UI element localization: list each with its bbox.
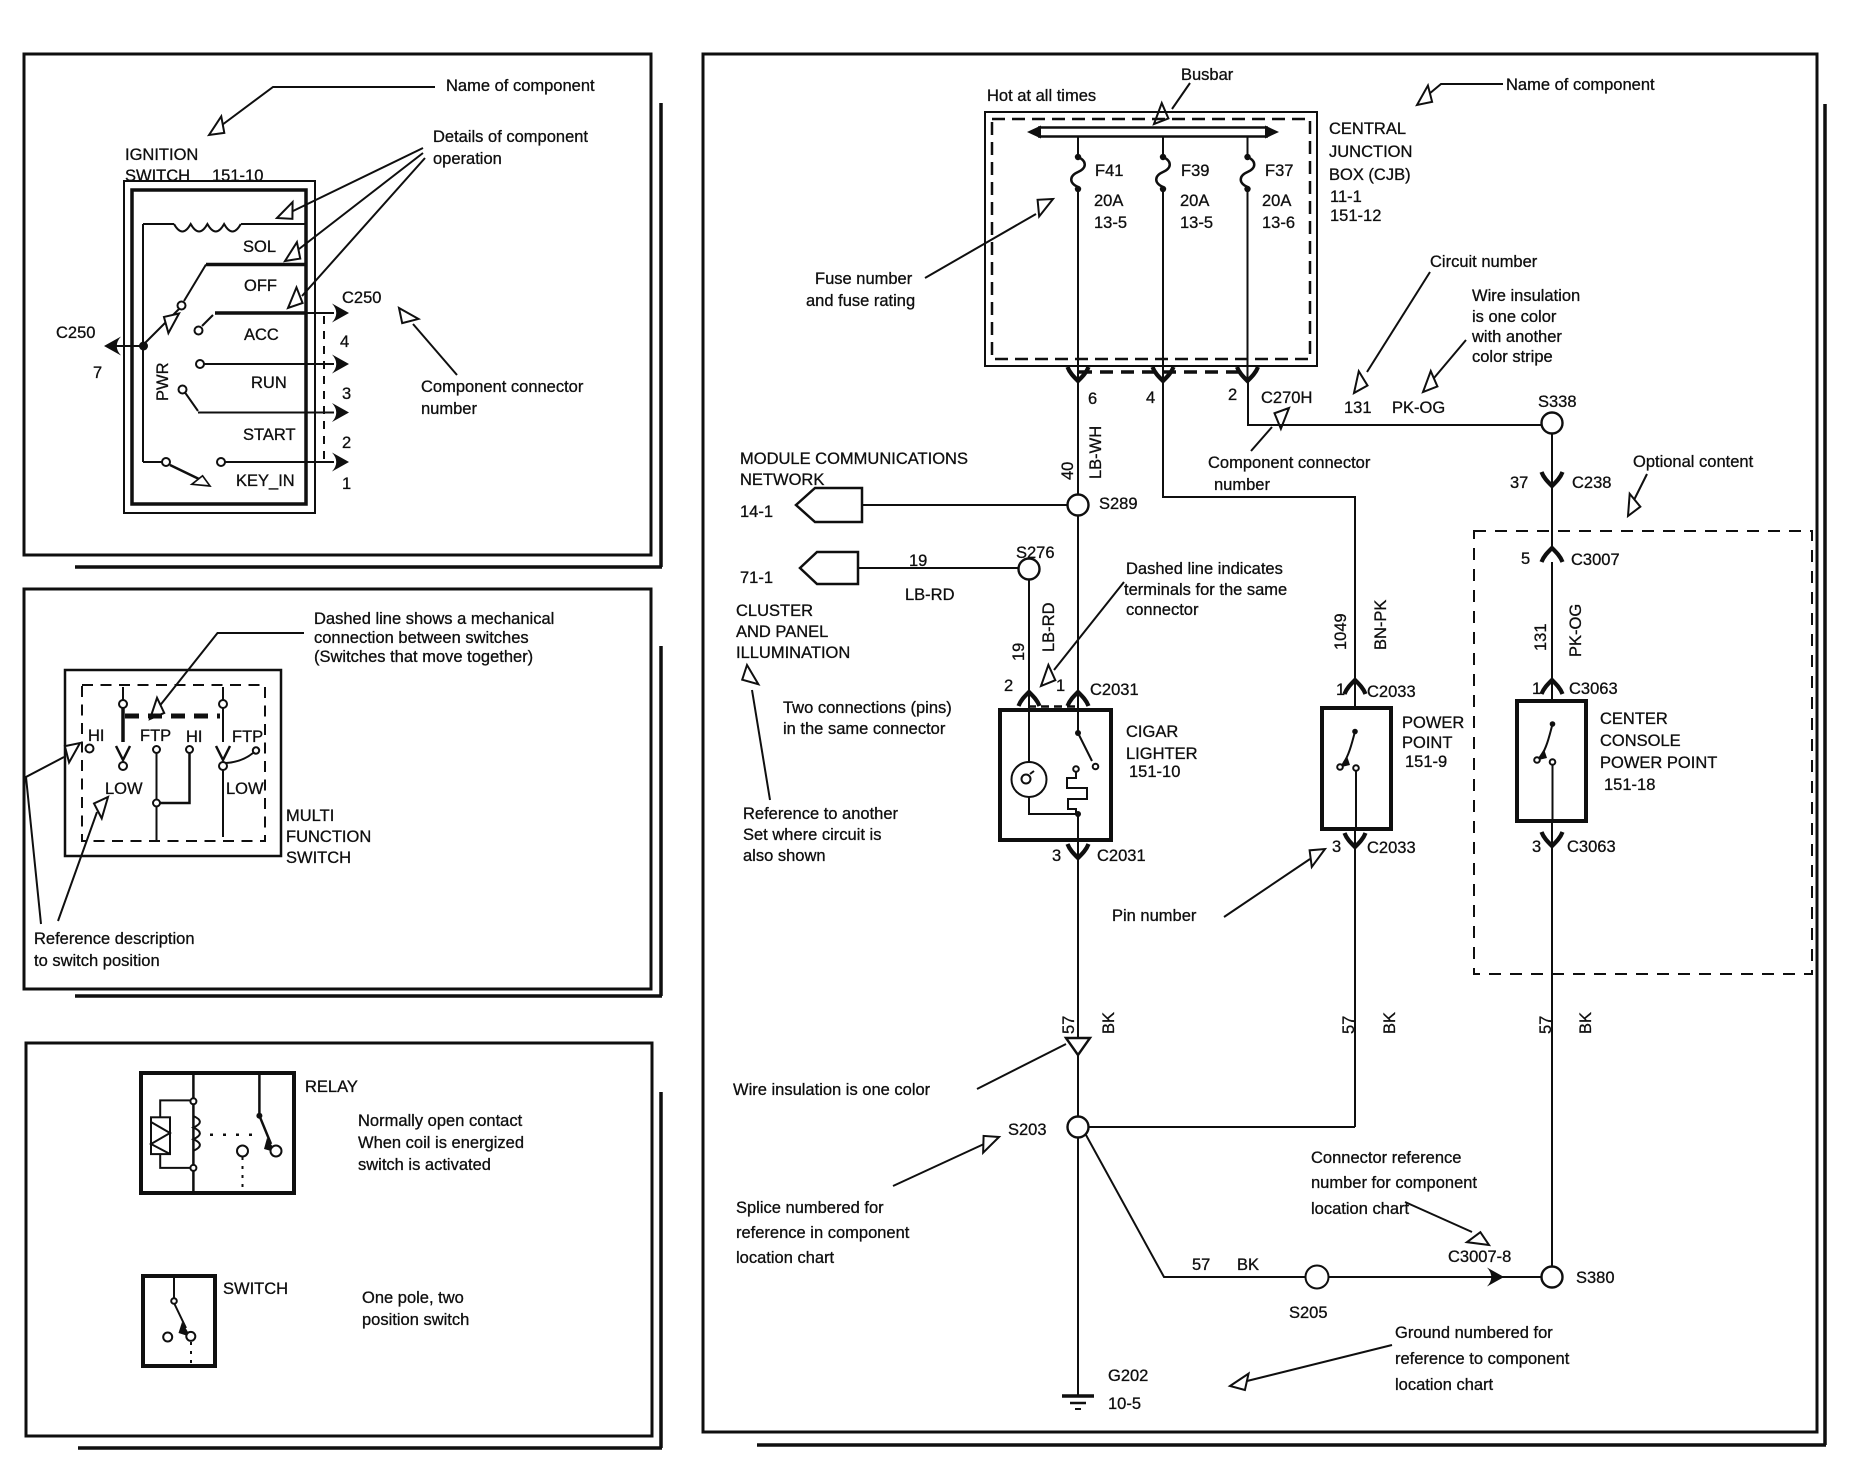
svg-text:19: 19 xyxy=(1010,643,1028,661)
svg-text:with another: with another xyxy=(1471,328,1562,346)
svg-text:1049: 1049 xyxy=(1332,613,1350,650)
svg-text:Reference description: Reference description xyxy=(34,930,195,948)
svg-text:MODULE COMMUNICATIONS: MODULE COMMUNICATIONS xyxy=(740,450,968,468)
svg-text:FUNCTION: FUNCTION xyxy=(286,828,371,846)
svg-text:IGNITION: IGNITION xyxy=(125,146,198,164)
svg-text:151-9: 151-9 xyxy=(1405,753,1447,771)
svg-text:connector: connector xyxy=(1126,601,1199,619)
svg-text:2: 2 xyxy=(1004,677,1013,695)
svg-text:FTP: FTP xyxy=(140,727,171,745)
svg-text:F41: F41 xyxy=(1095,162,1123,180)
svg-text:151-18: 151-18 xyxy=(1604,776,1655,794)
svg-text:SWITCH: SWITCH xyxy=(223,1280,288,1298)
svg-text:C238: C238 xyxy=(1572,474,1611,492)
svg-text:number: number xyxy=(421,400,477,418)
svg-text:terminals for the same: terminals for the same xyxy=(1124,581,1287,599)
svg-text:is one color: is one color xyxy=(1472,308,1557,326)
svg-text:number: number xyxy=(1214,476,1270,494)
svg-text:number for component: number for component xyxy=(1311,1174,1477,1192)
svg-text:5: 5 xyxy=(1521,550,1530,568)
svg-text:Optional content: Optional content xyxy=(1633,453,1754,471)
svg-text:7: 7 xyxy=(93,364,102,382)
svg-text:Dashed line indicates: Dashed line indicates xyxy=(1126,560,1283,578)
svg-text:S289: S289 xyxy=(1099,495,1138,513)
svg-text:151-12: 151-12 xyxy=(1330,207,1381,225)
svg-text:131: 131 xyxy=(1532,623,1550,651)
svg-text:S205: S205 xyxy=(1289,1304,1328,1322)
svg-text:2: 2 xyxy=(342,434,351,452)
svg-text:F39: F39 xyxy=(1181,162,1209,180)
svg-text:Name of component: Name of component xyxy=(446,77,595,95)
svg-text:KEY_IN: KEY_IN xyxy=(236,472,295,490)
svg-text:C3007-8: C3007-8 xyxy=(1448,1248,1511,1266)
svg-text:57: 57 xyxy=(1192,1256,1210,1274)
svg-text:LIGHTER: LIGHTER xyxy=(1126,745,1198,763)
svg-text:switch is activated: switch is activated xyxy=(358,1156,491,1174)
svg-text:Component connector: Component connector xyxy=(1208,454,1371,472)
svg-text:SOL: SOL xyxy=(243,238,276,256)
svg-text:G202: G202 xyxy=(1108,1367,1148,1385)
svg-text:Connector reference: Connector reference xyxy=(1311,1149,1461,1167)
svg-text:CLUSTER: CLUSTER xyxy=(736,602,813,620)
svg-text:10-5: 10-5 xyxy=(1108,1395,1141,1413)
svg-text:LOW: LOW xyxy=(226,780,264,798)
svg-text:MULTI: MULTI xyxy=(286,807,334,825)
svg-text:RELAY: RELAY xyxy=(305,1078,358,1096)
svg-text:BK: BK xyxy=(1381,1012,1399,1034)
svg-text:BN-PK: BN-PK xyxy=(1372,600,1390,650)
svg-text:C250: C250 xyxy=(56,324,95,342)
svg-text:71-1: 71-1 xyxy=(740,569,773,587)
svg-text:RUN: RUN xyxy=(251,374,287,392)
svg-text:Wire insulation is one color: Wire insulation is one color xyxy=(733,1081,931,1099)
svg-text:151-10: 151-10 xyxy=(1129,763,1180,781)
svg-text:position switch: position switch xyxy=(362,1311,469,1329)
svg-text:Component connector: Component connector xyxy=(421,378,584,396)
svg-text:PWR: PWR xyxy=(154,362,172,401)
svg-text:BK: BK xyxy=(1577,1012,1595,1034)
svg-text:and fuse rating: and fuse rating xyxy=(806,292,915,310)
svg-text:CENTER: CENTER xyxy=(1600,710,1668,728)
svg-text:C3063: C3063 xyxy=(1569,680,1618,698)
svg-text:Dashed line shows a mechanical: Dashed line shows a mechanical xyxy=(314,610,554,628)
svg-text:CIGAR: CIGAR xyxy=(1126,723,1178,741)
svg-text:2: 2 xyxy=(1228,386,1237,404)
svg-text:Fuse number: Fuse number xyxy=(815,270,913,288)
svg-text:LOW: LOW xyxy=(105,780,143,798)
svg-text:11-1: 11-1 xyxy=(1330,188,1362,206)
svg-text:57: 57 xyxy=(1537,1016,1555,1034)
svg-text:NETWORK: NETWORK xyxy=(740,471,824,489)
svg-text:FTP: FTP xyxy=(232,728,263,746)
svg-text:AND PANEL: AND PANEL xyxy=(736,623,828,641)
svg-text:57: 57 xyxy=(1340,1016,1358,1034)
svg-text:START: START xyxy=(243,426,296,444)
svg-text:C3007: C3007 xyxy=(1571,551,1620,569)
svg-text:1: 1 xyxy=(342,475,351,493)
svg-text:CENTRAL: CENTRAL xyxy=(1329,120,1406,138)
svg-text:HI: HI xyxy=(88,727,105,745)
svg-text:SWITCH: SWITCH xyxy=(125,167,190,185)
svg-text:Splice numbered for: Splice numbered for xyxy=(736,1199,884,1217)
svg-text:F37: F37 xyxy=(1265,162,1293,180)
svg-text:3: 3 xyxy=(1332,838,1341,856)
svg-text:color stripe: color stripe xyxy=(1472,348,1553,366)
svg-text:POWER: POWER xyxy=(1402,714,1464,732)
svg-text:SWITCH: SWITCH xyxy=(286,849,351,867)
svg-text:BK: BK xyxy=(1237,1256,1259,1274)
svg-text:Two connections (pins): Two connections (pins) xyxy=(783,699,952,717)
svg-text:14-1: 14-1 xyxy=(740,503,773,521)
svg-text:C2031: C2031 xyxy=(1090,681,1139,699)
svg-text:Ground numbered for: Ground numbered for xyxy=(1395,1324,1553,1342)
svg-text:C2033: C2033 xyxy=(1367,839,1416,857)
svg-text:1: 1 xyxy=(1532,680,1541,698)
svg-text:LB-RD: LB-RD xyxy=(905,586,955,604)
svg-text:ILLUMINATION: ILLUMINATION xyxy=(736,644,850,662)
svg-text:Busbar: Busbar xyxy=(1181,66,1234,84)
svg-text:57: 57 xyxy=(1060,1016,1078,1034)
svg-text:13-5: 13-5 xyxy=(1094,214,1127,232)
svg-text:reference in component: reference in component xyxy=(736,1224,910,1242)
svg-text:One pole, two: One pole, two xyxy=(362,1289,464,1307)
svg-text:Wire insulation: Wire insulation xyxy=(1472,287,1580,305)
svg-text:location chart: location chart xyxy=(1395,1376,1494,1394)
svg-text:C270H: C270H xyxy=(1261,389,1312,407)
svg-text:3: 3 xyxy=(1532,838,1541,856)
svg-text:location chart: location chart xyxy=(1311,1200,1410,1218)
svg-text:Normally open contact: Normally open contact xyxy=(358,1112,523,1130)
svg-text:HI: HI xyxy=(186,728,203,746)
svg-text:1: 1 xyxy=(1336,681,1345,699)
svg-text:Set where circuit is: Set where circuit is xyxy=(743,826,881,844)
svg-text:BOX (CJB): BOX (CJB) xyxy=(1329,166,1411,184)
svg-text:20A: 20A xyxy=(1094,192,1123,210)
svg-text:20A: 20A xyxy=(1262,192,1291,210)
svg-text:C2033: C2033 xyxy=(1367,683,1416,701)
svg-text:Pin number: Pin number xyxy=(1112,907,1197,925)
svg-text:in the same connector: in the same connector xyxy=(783,720,946,738)
svg-text:POWER POINT: POWER POINT xyxy=(1600,754,1717,772)
svg-text:LB-WH: LB-WH xyxy=(1087,426,1105,479)
svg-text:location chart: location chart xyxy=(736,1249,835,1267)
svg-text:OFF: OFF xyxy=(244,277,277,295)
svg-text:Details of component: Details of component xyxy=(433,128,588,146)
svg-text:When coil is energized: When coil is energized xyxy=(358,1134,524,1152)
svg-text:CONSOLE: CONSOLE xyxy=(1600,732,1681,750)
svg-text:6: 6 xyxy=(1088,390,1097,408)
svg-text:20A: 20A xyxy=(1180,192,1209,210)
svg-text:19: 19 xyxy=(909,552,927,570)
svg-text:C2031: C2031 xyxy=(1097,847,1146,865)
svg-text:PK-OG: PK-OG xyxy=(1392,399,1445,417)
svg-text:Reference to another: Reference to another xyxy=(743,805,899,823)
svg-text:to switch position: to switch position xyxy=(34,952,160,970)
svg-text:37: 37 xyxy=(1510,474,1528,492)
svg-text:131: 131 xyxy=(1344,399,1372,417)
svg-text:JUNCTION: JUNCTION xyxy=(1329,143,1412,161)
svg-text:S380: S380 xyxy=(1576,1269,1615,1287)
svg-text:3: 3 xyxy=(1052,847,1061,865)
svg-text:13-6: 13-6 xyxy=(1262,214,1295,232)
svg-text:connection between switches: connection between switches xyxy=(314,629,529,647)
svg-text:LB-RD: LB-RD xyxy=(1040,602,1058,652)
svg-text:C3063: C3063 xyxy=(1567,838,1616,856)
svg-text:S203: S203 xyxy=(1008,1121,1047,1139)
svg-text:ACC: ACC xyxy=(244,326,279,344)
svg-text:also shown: also shown xyxy=(743,847,826,865)
svg-text:3: 3 xyxy=(342,385,351,403)
svg-text:C250: C250 xyxy=(342,289,381,307)
svg-text:Hot at all times: Hot at all times xyxy=(987,87,1096,105)
svg-text:(Switches that move together): (Switches that move together) xyxy=(314,648,533,666)
svg-text:BK: BK xyxy=(1100,1012,1118,1034)
svg-text:S338: S338 xyxy=(1538,393,1577,411)
svg-text:PK-OG: PK-OG xyxy=(1567,604,1585,657)
svg-text:POINT: POINT xyxy=(1402,734,1452,752)
svg-text:operation: operation xyxy=(433,150,502,168)
svg-text:Circuit number: Circuit number xyxy=(1430,253,1538,271)
svg-text:151-10: 151-10 xyxy=(212,167,263,185)
svg-text:reference to component: reference to component xyxy=(1395,1350,1570,1368)
svg-text:40: 40 xyxy=(1059,462,1077,480)
svg-text:13-5: 13-5 xyxy=(1180,214,1213,232)
svg-text:Name of component: Name of component xyxy=(1506,76,1655,94)
svg-text:4: 4 xyxy=(1146,389,1155,407)
svg-text:1: 1 xyxy=(1056,677,1065,695)
svg-text:4: 4 xyxy=(340,333,349,351)
